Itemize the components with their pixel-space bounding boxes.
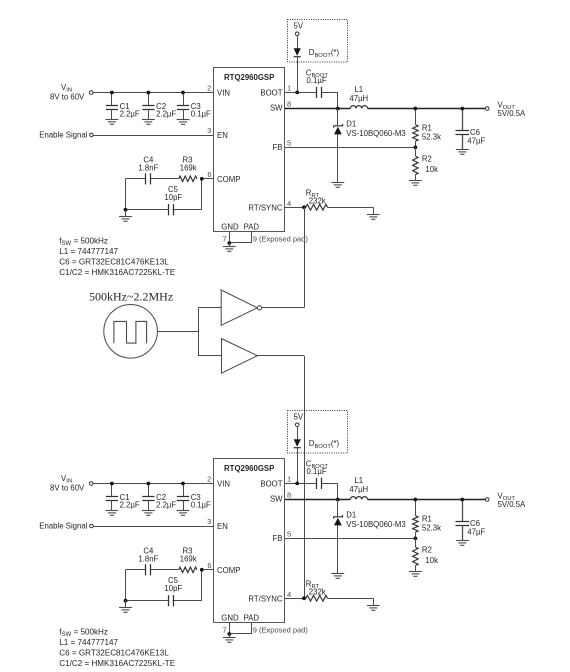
svg-text:5V: 5V bbox=[294, 413, 304, 422]
svg-text:R1: R1 bbox=[422, 123, 432, 132]
wire inverter output to top RT/SYNC bbox=[262, 207, 305, 307]
svg-text:8V to 60V: 8V to 60V bbox=[50, 484, 85, 493]
clock source 500kHz~2.2MHz bbox=[89, 289, 173, 358]
resistor R1 52.3k (top) bbox=[413, 109, 441, 148]
ground below C3 (bottom) bbox=[177, 511, 190, 516]
svg-text:VIN: VIN bbox=[217, 479, 230, 488]
node Enable Signal terminal (top) bbox=[39, 131, 93, 140]
svg-text:Enable Signal: Enable Signal bbox=[39, 131, 87, 140]
svg-text:FB: FB bbox=[273, 534, 283, 543]
junction comp lower-left (top) bbox=[124, 208, 128, 212]
IC U-top RTQ2960GSP body bbox=[214, 68, 285, 232]
note block (bottom) bbox=[59, 627, 175, 668]
svg-text:9 (Exposed pad): 9 (Exposed pad) bbox=[253, 626, 309, 635]
diode D1 VS-10BQ060-M3 (top) bbox=[334, 109, 406, 183]
svg-text:C1/C2 = HMK316AC7225KL-TE: C1/C2 = HMK316AC7225KL-TE bbox=[59, 659, 175, 668]
ground R2 (top) bbox=[409, 181, 422, 186]
svg-text:232k: 232k bbox=[309, 197, 326, 206]
wire FB (bottom) bbox=[285, 538, 415, 540]
node 5V terminal (bottom) bbox=[294, 413, 304, 427]
svg-text:0.1µF: 0.1µF bbox=[191, 501, 211, 510]
svg-text:PAD: PAD bbox=[244, 613, 260, 622]
dashed box DBOOT option (bottom) bbox=[288, 411, 348, 454]
svg-text:C6 = GRT32EC81C476KE13L: C6 = GRT32EC81C476KE13L bbox=[59, 649, 169, 658]
resistor R1 52.3k (bottom) bbox=[413, 500, 441, 539]
wire EN (bottom) bbox=[93, 526, 213, 528]
capacitor C2 2.2uF (top) bbox=[142, 93, 176, 120]
svg-text:0.1µF: 0.1µF bbox=[307, 467, 327, 476]
svg-text:GND: GND bbox=[221, 613, 239, 622]
svg-text:47µH: 47µH bbox=[349, 94, 368, 103]
svg-text:169k: 169k bbox=[180, 163, 197, 172]
svg-text:7: 7 bbox=[222, 235, 226, 244]
svg-text:RTQ2960GSP: RTQ2960GSP bbox=[224, 73, 274, 82]
svg-text:GND: GND bbox=[221, 222, 239, 231]
diode DBOOT (top) bbox=[294, 48, 340, 59]
svg-text:3: 3 bbox=[207, 517, 211, 526]
svg-text:D1: D1 bbox=[346, 120, 356, 129]
junction C3/VIN (bottom) bbox=[181, 482, 185, 486]
svg-text:2: 2 bbox=[207, 475, 211, 484]
junction comp lower-left (bottom) bbox=[124, 599, 128, 603]
wire EN (top) bbox=[93, 135, 213, 137]
svg-text:2.2µF: 2.2µF bbox=[156, 501, 176, 510]
junction SW/R1 (bottom) bbox=[414, 498, 418, 502]
resistor RRT 232k (top) bbox=[306, 189, 328, 211]
inverter U2 (to top circuit) bbox=[221, 290, 261, 325]
svg-text:2: 2 bbox=[207, 84, 211, 93]
node VOUT terminal (top) bbox=[485, 101, 526, 119]
junction C1/VIN (top) bbox=[110, 91, 114, 95]
ground exposed pad (bottom) bbox=[223, 634, 236, 642]
ground below C1 (top) bbox=[106, 120, 119, 125]
capacitor C6 47uF (top) bbox=[456, 109, 486, 150]
junction FB divider (bottom) bbox=[414, 537, 418, 541]
note block (top) bbox=[59, 236, 175, 277]
wire BOOT (bottom) bbox=[285, 483, 338, 499]
svg-text:6: 6 bbox=[207, 561, 211, 570]
junction COMP pin (top) bbox=[200, 177, 204, 181]
svg-text:2.2µF: 2.2µF bbox=[120, 110, 140, 119]
svg-text:R2: R2 bbox=[422, 154, 432, 163]
svg-text:VS-10BQ060-M3: VS-10BQ060-M3 bbox=[346, 129, 405, 138]
ground RT/SYNC (bottom) bbox=[367, 606, 380, 611]
svg-text:52.3k: 52.3k bbox=[422, 523, 441, 532]
node VOUT terminal (bottom) bbox=[485, 492, 526, 510]
svg-text:BOOT: BOOT bbox=[260, 479, 282, 488]
wire RT/SYNC (top) bbox=[285, 207, 374, 214]
svg-text:RT/SYNC: RT/SYNC bbox=[248, 594, 282, 603]
inductor L1 47uH (top) bbox=[349, 85, 368, 109]
junction SW/D1 (bottom) bbox=[336, 498, 340, 502]
capacitor C1 2.2uF (bottom) bbox=[106, 484, 140, 511]
svg-text:RT/SYNC: RT/SYNC bbox=[248, 203, 282, 212]
capacitor CBOOT 0.1uF (top) bbox=[306, 68, 329, 98]
svg-text:4: 4 bbox=[287, 199, 291, 208]
capacitor C6 47uF (bottom) bbox=[456, 500, 486, 541]
svg-text:L1 = 744777147: L1 = 744777147 bbox=[59, 638, 118, 647]
wire COMP upper (top) bbox=[126, 178, 214, 180]
diode D1 VS-10BQ060-M3 (bottom) bbox=[334, 500, 406, 574]
svg-text:0.1µF: 0.1µF bbox=[191, 110, 211, 119]
resistor R2 10k (bottom) bbox=[413, 538, 438, 571]
svg-text:8: 8 bbox=[287, 491, 291, 500]
junction C1/VIN (bottom) bbox=[110, 482, 114, 486]
junction FB divider (top) bbox=[414, 146, 418, 150]
svg-text:47µF: 47µF bbox=[467, 528, 485, 537]
diode DBOOT (bottom) bbox=[294, 439, 340, 450]
wire buffer input bbox=[198, 355, 222, 357]
wire clock output bbox=[157, 331, 198, 333]
ground comp network (bottom) bbox=[119, 601, 132, 613]
svg-text:47µF: 47µF bbox=[467, 137, 485, 146]
ground C6 (bottom) bbox=[456, 541, 469, 546]
wire COMP left vertical (top) bbox=[125, 179, 127, 210]
svg-text:SW: SW bbox=[270, 495, 283, 504]
svg-text:8: 8 bbox=[287, 100, 291, 109]
wire FB (top) bbox=[285, 147, 415, 149]
exposed pad pins 7/9 (top) bbox=[222, 231, 308, 243]
svg-text:VS-10BQ060-M3: VS-10BQ060-M3 bbox=[346, 520, 405, 529]
svg-text:C1/C2 = HMK316AC7225KL-TE: C1/C2 = HMK316AC7225KL-TE bbox=[59, 268, 175, 277]
capacitor C1 2.2uF (top) bbox=[106, 93, 140, 120]
svg-text:232k: 232k bbox=[309, 588, 326, 597]
svg-text:RTQ2960GSP: RTQ2960GSP bbox=[224, 464, 274, 473]
svg-text:5V/0.5A: 5V/0.5A bbox=[498, 500, 527, 509]
svg-text:3: 3 bbox=[207, 126, 211, 135]
capacitor C4 1.8nF (top) bbox=[138, 155, 158, 184]
svg-text:4: 4 bbox=[287, 590, 291, 599]
svg-text:0.1µF: 0.1µF bbox=[307, 76, 327, 85]
node VIN terminal (top) bbox=[50, 83, 93, 102]
svg-text:EN: EN bbox=[217, 522, 228, 531]
svg-text:1: 1 bbox=[287, 83, 291, 92]
svg-text:10k: 10k bbox=[425, 165, 438, 174]
wire COMP upper (bottom) bbox=[126, 569, 214, 571]
svg-text:COMP: COMP bbox=[217, 175, 240, 184]
svg-text:2.2µF: 2.2µF bbox=[120, 501, 140, 510]
svg-text:SW: SW bbox=[270, 104, 283, 113]
wire DBOOT to BOOT (bottom) bbox=[297, 448, 299, 484]
ground comp network (top) bbox=[119, 210, 132, 222]
ground below C2 (top) bbox=[142, 120, 155, 125]
svg-text:C6: C6 bbox=[470, 519, 480, 528]
junction SW/C6 (bottom) bbox=[460, 498, 464, 502]
node 5V terminal (top) bbox=[294, 22, 304, 36]
svg-text:10pF: 10pF bbox=[164, 193, 182, 202]
junction SW/R1 (top) bbox=[414, 107, 418, 111]
wire clock branch vertical bbox=[198, 308, 200, 356]
ground exposed pad (top) bbox=[223, 243, 236, 251]
svg-text:1.8nF: 1.8nF bbox=[138, 554, 158, 563]
capacitor C3 0.1uF (top) bbox=[177, 93, 211, 120]
junction SW/C6 (top) bbox=[460, 107, 464, 111]
junction C2/VIN (bottom) bbox=[147, 482, 151, 486]
wire DBOOT to BOOT (top) bbox=[297, 57, 299, 93]
resistor R3 169k (top) bbox=[179, 155, 197, 181]
ground below C3 (top) bbox=[177, 120, 190, 125]
inductor L1 47uH (bottom) bbox=[349, 476, 368, 500]
junction RT/SYNC node (bottom) bbox=[302, 596, 306, 600]
junction C3/VIN (top) bbox=[181, 91, 185, 95]
ground C6 (top) bbox=[456, 150, 469, 155]
junction C2/VIN (top) bbox=[147, 91, 151, 95]
junction pad ground (top) bbox=[227, 241, 231, 245]
resistor RRT 232k (bottom) bbox=[306, 580, 328, 602]
capacitor C2 2.2uF (bottom) bbox=[142, 484, 176, 511]
svg-text:6: 6 bbox=[207, 170, 211, 179]
IC U-bottom RTQ2960GSP body bbox=[214, 459, 285, 623]
resistor R3 169k (bottom) bbox=[179, 546, 197, 572]
junction pad ground (bottom) bbox=[227, 632, 231, 636]
capacitor C5 10pF (bottom) bbox=[164, 576, 182, 606]
svg-text:2.2µF: 2.2µF bbox=[156, 110, 176, 119]
junction BOOT/DBOOT (top) bbox=[295, 91, 299, 95]
svg-text:COMP: COMP bbox=[217, 566, 240, 575]
svg-text:5: 5 bbox=[287, 139, 291, 148]
node Enable Signal terminal (bottom) bbox=[39, 522, 93, 531]
ground below C1 (bottom) bbox=[106, 511, 119, 516]
dashed box DBOOT option (top) bbox=[288, 20, 348, 63]
svg-text:52.3k: 52.3k bbox=[422, 132, 441, 141]
svg-text:L1: L1 bbox=[354, 85, 363, 94]
wire SW (bottom) bbox=[285, 499, 485, 501]
svg-text:500kHz~2.2MHz: 500kHz~2.2MHz bbox=[89, 289, 173, 303]
svg-text:L1 = 744777147: L1 = 744777147 bbox=[59, 247, 118, 256]
wire VIN rail (bottom) bbox=[93, 483, 213, 485]
wire SW (top) bbox=[285, 108, 485, 110]
junction BOOT/DBOOT (bottom) bbox=[295, 482, 299, 486]
svg-text:7: 7 bbox=[222, 626, 226, 635]
svg-text:D1: D1 bbox=[346, 511, 356, 520]
svg-text:5V/0.5A: 5V/0.5A bbox=[498, 109, 527, 118]
ground R2 (bottom) bbox=[409, 572, 422, 577]
wire COMP lower (top) bbox=[126, 179, 202, 210]
wire 5V to DBOOT (bottom) bbox=[297, 427, 299, 440]
node VIN terminal (bottom) bbox=[50, 474, 93, 493]
wire BOOT (top) bbox=[285, 92, 338, 108]
svg-text:47µH: 47µH bbox=[349, 485, 368, 494]
wire RT/SYNC (bottom) bbox=[285, 598, 374, 605]
svg-text:10k: 10k bbox=[425, 556, 438, 565]
svg-text:8V to 60V: 8V to 60V bbox=[50, 93, 85, 102]
ground D1 (bottom) bbox=[331, 574, 344, 579]
svg-text:169k: 169k bbox=[180, 554, 197, 563]
svg-text:10pF: 10pF bbox=[164, 584, 182, 593]
junction SW/D1 (top) bbox=[336, 107, 340, 111]
ground RT/SYNC (top) bbox=[367, 215, 380, 220]
svg-text:1.8nF: 1.8nF bbox=[138, 163, 158, 172]
wire VIN rail (top) bbox=[93, 92, 213, 94]
svg-text:C6: C6 bbox=[470, 128, 480, 137]
capacitor C5 10pF (top) bbox=[164, 185, 182, 215]
svg-text:FB: FB bbox=[273, 143, 283, 152]
svg-text:R2: R2 bbox=[422, 545, 432, 554]
wire 5V to DBOOT (top) bbox=[297, 36, 299, 49]
svg-text:C6 = GRT32EC81C476KE13L: C6 = GRT32EC81C476KE13L bbox=[59, 258, 169, 267]
wire inverter input bbox=[198, 307, 221, 309]
junction COMP pin (bottom) bbox=[200, 568, 204, 572]
wire COMP left vertical (bottom) bbox=[125, 570, 127, 601]
capacitor C4 1.8nF (bottom) bbox=[138, 546, 158, 575]
svg-text:5: 5 bbox=[287, 530, 291, 539]
svg-text:VIN: VIN bbox=[217, 88, 230, 97]
buffer U3 (to bottom circuit) bbox=[222, 339, 258, 374]
svg-text:L1: L1 bbox=[354, 476, 363, 485]
ground D1 (top) bbox=[331, 183, 344, 188]
wire buffer output to bottom RT/SYNC bbox=[257, 356, 304, 599]
svg-text:EN: EN bbox=[217, 131, 228, 140]
svg-text:5V: 5V bbox=[294, 22, 304, 31]
svg-text:BOOT: BOOT bbox=[260, 88, 282, 97]
svg-text:PAD: PAD bbox=[244, 222, 260, 231]
resistor R2 10k (top) bbox=[413, 147, 438, 180]
exposed pad pins 7/9 (bottom) bbox=[222, 622, 308, 634]
ground below C2 (bottom) bbox=[142, 511, 155, 516]
capacitor CBOOT 0.1uF (bottom) bbox=[306, 459, 329, 489]
wire COMP lower (bottom) bbox=[126, 570, 202, 601]
svg-text:9 (Exposed pad): 9 (Exposed pad) bbox=[253, 235, 309, 244]
capacitor C3 0.1uF (bottom) bbox=[177, 484, 211, 511]
svg-text:1: 1 bbox=[287, 474, 291, 483]
svg-text:R1: R1 bbox=[422, 514, 432, 523]
svg-text:Enable Signal: Enable Signal bbox=[39, 522, 87, 531]
junction RT/SYNC node (top) bbox=[302, 205, 306, 209]
